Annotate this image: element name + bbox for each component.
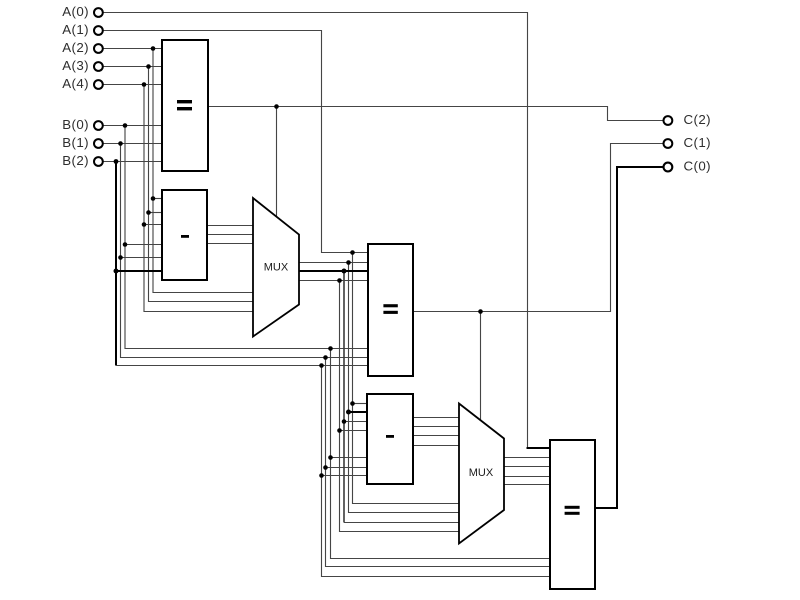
mux U3 [253,198,299,337]
wire net MUX2OUT0: mux2 out y457.5 to box3 [505,457,552,459]
mux U6 [459,404,504,544]
wire net B(0): port y125.5 to box1; tap x125.5 down, T subtractor1 y244.5, corner y348.5 to box2; tap x330.5 down, T subtractor2 y457.5, corner y558.5 to box3 [103,123,551,558]
svg-text:A(2): A(2) [62,40,89,55]
svg-text:MUX: MUX [469,467,494,479]
wire net EQ2OUT: box2 output y311.5 right to x610.5, up to C(1) y143.5; tap x480.5 down to mux2 select [414,144,664,421]
output port C(0) [664,163,673,172]
input port A(2) [94,44,103,53]
output port C(1) [664,139,673,148]
comparator U1 (=) : 5-input equality block [162,40,208,171]
svg-text:B(2): B(2) [62,153,89,168]
input port B(2) [94,157,103,166]
wire net MUX1OUT0: mux1 out y262.5 to box2; tap x348.5 down, thick T subtractor2 y412, corner y512.5 to mux2 [299,260,461,512]
wire net MUX2OUT1: mux2 out y466.5 to box3 [505,466,552,468]
wire net EQ1OUT: box1 output y106.5 right to x607.5, jog down to C(2) y120.5; tap x276.5 down to mux1 select [208,104,664,216]
svg-text:C(2): C(2) [684,112,711,127]
wire net EQ3OUT (thick): box3 output y508 right to x617, up to C(0) y167 [595,167,664,508]
wire net A(4): port y84.5 to box1; tap x143.5 down, T into subtractor1 y224.5, corner to mux1 in y311.5 [103,82,254,311]
input port A(1) [94,26,103,35]
wire net A(1): port y30.5 right, down x321.5 to y252.5 into box2; tap x352.5 down to subtractor2 in y403.5 and mux2 in y503.5 [103,31,460,504]
comparator U4 (=) [368,244,413,376]
svg-text:B(1): B(1) [62,135,89,150]
comparator U7 (=) [550,440,595,589]
svg-text:B(0): B(0) [62,117,89,132]
wire net MUX2OUT3: mux2 out y484.5 to box3 [505,484,552,486]
svg-text:C(1): C(1) [684,135,711,150]
input port B(1) [94,139,103,148]
wire net MUX1OUT2: mux1 out y280.5 to box2; tap x339.5 down, T subtractor2 y430.5, corner y531.5 to mux2 [299,278,461,531]
input port B(0) [94,121,103,130]
wire net SUB1OUT0: subtractor1 out to mux1 in y225.5 [207,225,254,227]
wire net A(3): port y66.5 to box1; tap x148.5 down, T into subtractor1 y212.5, corner to mux1 in y301.5 [103,64,254,301]
subtractor U2 (-) [162,190,207,280]
svg-text:A(1): A(1) [62,22,89,37]
svg-text:A(3): A(3) [62,58,89,73]
wire net A(0): port y12.5 right to x527.5, down to box3 top input y448 [103,13,551,449]
wire net SUB2OUT1: subtractor2 out to mux2 in y426.5 [414,426,460,428]
input port A(4) [94,80,103,89]
wire net B(2): port y161.5 to box1; thick tap x116 down, thick T subtractor1 y271, corner y365.5 to box2; tap x321.5 down, T subtractor2 y475.5, corner y576.5 to box3 [103,159,551,576]
input port A(3) [94,62,103,71]
wire net SUB1OUT1: subtractor1 out to mux1 in y234.5 [207,234,254,236]
svg-text:MUX: MUX [264,261,289,273]
subtractor U5 (-) [367,394,413,484]
wire net SUB1OUT2: subtractor1 out to mux1 in y243.5 [207,243,254,245]
wire net SUB2OUT0: subtractor2 out to mux2 in y417.5 [414,417,460,419]
wire net SUB2OUT2: subtractor2 out to mux2 in y435.5 [414,435,460,437]
wire net SUB2OUT3: subtractor2 out to mux2 in y445.5 [414,445,460,447]
svg-text:A(4): A(4) [62,76,89,91]
svg-text:A(0): A(0) [62,4,89,19]
input port A(0) [94,8,103,17]
svg-text:C(0): C(0) [684,158,711,173]
output port C(2) [664,116,673,125]
wire net B(1): port y143.5 to box1; tap x120.5 down, T subtractor1 y257.5, corner y357.5 to box2; tap x325.5 down, T subtractor2 y467.5, corner y566.5 to box3 [103,141,551,566]
wire net A(2): port y48.5 to box1; tap x152.5 down, T into subtractor1 y198.5, corner to mux1 in y292.5 [103,46,254,292]
wire net MUX1OUT1 (thick): mux1 out y271 to box2; tap x344 down, T subtractor2 y421.5, corner y522.5 to mux2 [299,269,460,523]
wire net MUX2OUT2: mux2 out y476.5 to box3 [505,476,552,478]
